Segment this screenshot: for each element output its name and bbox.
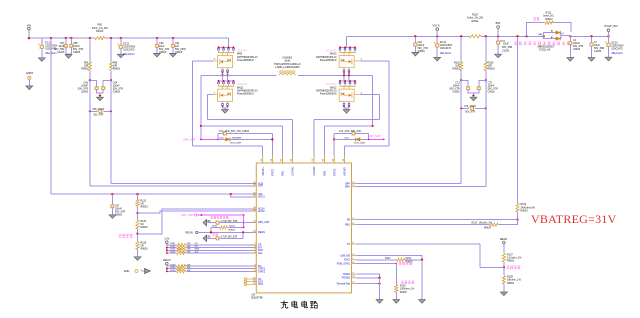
capacitor C71 bootstrap left xyxy=(218,131,272,155)
svg-text:R0603: R0603 xyxy=(507,282,515,285)
svg-text:REGN: REGN xyxy=(163,259,170,262)
resistor R150 pullup STAT2 xyxy=(166,270,256,273)
wire MN10 gate xyxy=(345,59,389,155)
svg-text:C70_470pF: C70_470pF xyxy=(464,106,477,108)
svg-text:PGND2: PGND2 xyxy=(342,277,351,280)
svg-text:R144: R144 xyxy=(170,251,176,253)
svg-text:R0603: R0603 xyxy=(113,68,121,71)
annotation pink TS xyxy=(507,266,521,269)
resistor R144 pullup SCL xyxy=(166,251,256,254)
power port PCAP_30V xyxy=(604,24,617,36)
label MN9 xyxy=(237,49,258,62)
wire rail down to MN10 drains xyxy=(345,36,347,47)
svg-text:08a;12mm: 08a;12mm xyxy=(612,52,623,55)
wire ILIM_HIZ row xyxy=(357,256,423,260)
svg-text:75ohm: 75ohm xyxy=(229,225,236,227)
wire MN12 gate xyxy=(314,92,379,155)
svg-text:10K: 10K xyxy=(187,270,191,272)
svg-text:010C2470: 010C2470 xyxy=(612,47,624,50)
svg-text:C1206: C1206 xyxy=(57,51,65,54)
junction dots on right rail xyxy=(414,35,609,37)
svg-text:4.7UF 25V_X7R: 4.7UF 25V_X7R xyxy=(221,221,238,223)
svg-text:R139: R139 xyxy=(400,285,406,287)
svg-text:VSYS: VSYS xyxy=(433,23,440,27)
svg-text:R0603: R0603 xyxy=(229,230,236,232)
svg-text:50V_X7R: 50V_X7R xyxy=(94,115,104,117)
svg-text:PowerDI5060-8: PowerDI5060-8 xyxy=(237,93,254,96)
svg-text:R0603: R0603 xyxy=(406,262,413,264)
label MN10 xyxy=(316,49,337,62)
ground filter center xyxy=(97,96,104,101)
transistor MN9 xyxy=(213,46,234,74)
label U8 refdes xyxy=(252,293,264,300)
wire VAC vertical xyxy=(50,38,52,194)
svg-text:SW1: SW1 xyxy=(282,170,285,176)
resistor R132 xyxy=(516,203,536,220)
ground under R138 xyxy=(501,292,508,296)
svg-text:10K: 10K xyxy=(187,251,191,253)
capacitor C60 xyxy=(154,38,170,57)
node right filter center xyxy=(472,95,474,97)
ground under C57 C58 xyxy=(65,54,72,58)
svg-text:50V_X7R: 50V_X7R xyxy=(465,112,475,114)
capacitor C57 xyxy=(54,38,68,54)
svg-text:R0603: R0603 xyxy=(484,228,491,230)
IC U8 top pins xyxy=(261,155,347,176)
ground right filter xyxy=(470,96,477,101)
svg-text:R0603: R0603 xyxy=(141,226,149,229)
capacitor C70 xyxy=(460,106,487,114)
svg-text:DRV_SUP: DRV_SUP xyxy=(184,138,196,141)
port DRV_SUP left xyxy=(182,214,245,228)
wire MN11 gate xyxy=(208,92,293,155)
wire SRP vertical xyxy=(460,80,462,183)
wire BAT rail segment 3 xyxy=(570,35,608,37)
svg-text:SDA: SDA xyxy=(195,248,200,251)
label MN11 xyxy=(237,83,258,96)
ground under R136 xyxy=(134,257,141,261)
power port 3.3V xyxy=(164,238,169,254)
power port BAT xyxy=(496,21,501,37)
svg-text:C65_470pF: C65_470pF xyxy=(92,109,105,111)
resistor R133 xyxy=(357,220,518,230)
wire MN11 source to ground xyxy=(223,107,228,110)
resistor R147 xyxy=(357,258,424,264)
annotation pink diode selection xyxy=(514,42,570,45)
resistor R60 xyxy=(92,24,108,40)
wire MN9 gate xyxy=(193,59,263,155)
wire SW1 to bootstrap xyxy=(200,75,283,155)
svg-text:C68: C68 xyxy=(206,221,211,223)
port REGN left xyxy=(186,231,257,234)
transistor MN10 xyxy=(339,46,360,74)
svg-text:BAT: BAT xyxy=(496,21,501,25)
wire MN11 drains up xyxy=(223,75,228,81)
inductor CHOKE3 xyxy=(274,57,301,76)
ground MN11 source xyxy=(222,110,229,114)
resistor R148 pullup PG xyxy=(167,265,256,268)
svg-text:R141: R141 xyxy=(170,243,176,245)
capacitor EC10 xyxy=(605,36,624,61)
capacitor C62 xyxy=(412,36,428,56)
IC U8 body xyxy=(256,163,351,293)
svg-text:R0603: R0603 xyxy=(507,260,515,263)
svg-text:VAC-2: VAC-2 xyxy=(258,196,266,199)
svg-text:SOD-123FL: SOD-123FL xyxy=(230,142,242,144)
wire ACN horizontal to U8 xyxy=(111,183,256,185)
wire PGND to ground xyxy=(376,278,383,303)
svg-text:VBATREG=31V: VBATREG=31V xyxy=(531,212,617,226)
ground under EC12 xyxy=(38,58,45,62)
diode D46 bootstrap right xyxy=(333,135,385,144)
svg-text:10K: 10K xyxy=(187,267,191,269)
svg-text:10K: 10K xyxy=(187,243,191,245)
svg-text:13Kohm_1%: 13Kohm_1% xyxy=(479,223,492,225)
node TS divider xyxy=(503,266,505,268)
node FB xyxy=(516,219,518,221)
wire VBUS rail right segment xyxy=(105,37,229,39)
svg-text:R122: R122 xyxy=(212,225,218,227)
wire R68 to sense node xyxy=(110,71,112,81)
svg-text:BTST2: BTST2 xyxy=(333,168,336,176)
svg-text:010C2470: 010C2470 xyxy=(440,47,452,50)
resistor R66 xyxy=(81,38,91,71)
resistor R131 xyxy=(136,194,148,213)
node ACUV tap xyxy=(136,233,138,235)
svg-text:R2512: R2512 xyxy=(471,20,479,23)
capacitor C63 filter xyxy=(78,80,100,95)
svg-text:C0603: C0603 xyxy=(81,90,89,93)
power port VSYS xyxy=(433,23,440,36)
svg-text:PowerDI5060-8: PowerDI5060-8 xyxy=(320,59,337,62)
annotation pink FSW xyxy=(399,262,412,265)
svg-text:10K: 10K xyxy=(187,249,191,251)
svg-text:GND: GND xyxy=(124,270,130,273)
power port REGN pullup xyxy=(163,259,170,271)
resistor R142 pullup INT xyxy=(166,246,256,249)
svg-text:HIDRV1: HIDRV1 xyxy=(262,167,265,176)
svg-text:TS: TS xyxy=(347,243,350,246)
wire SW2 to bootstrap xyxy=(325,75,374,155)
svg-text:BTST1: BTST1 xyxy=(272,168,275,176)
svg-text:08a;12mm: 08a;12mm xyxy=(123,53,134,56)
wire PGND row 1 xyxy=(357,274,380,278)
wire MN12 drains up xyxy=(344,75,349,81)
node filter center xyxy=(99,95,101,97)
svg-text:ILIM_HIZ: ILIM_HIZ xyxy=(340,255,350,258)
node ACN junction xyxy=(110,79,112,81)
resistor R138 xyxy=(502,267,521,292)
svg-text:FBG: FBG xyxy=(345,224,350,227)
wire SW1 rail xyxy=(201,74,277,76)
svg-text:C0603: C0603 xyxy=(159,51,167,54)
capacitor C75 filter xyxy=(474,80,499,93)
svg-text:ACOV: ACOV xyxy=(258,210,265,213)
wire VAC horizontal to U8 xyxy=(51,193,256,195)
svg-text:ICHG: ICHG xyxy=(344,259,350,262)
svg-text:C0603: C0603 xyxy=(453,90,461,93)
capacitor C68 DRV_SUP xyxy=(203,216,256,226)
node ACOV tap xyxy=(136,212,138,214)
svg-text:R149: R149 xyxy=(170,267,176,269)
capacitor C72 bootstrap right xyxy=(334,131,369,155)
power port VIN xyxy=(27,23,31,38)
svg-text:PowerDI5060-8: PowerDI5060-8 xyxy=(237,59,254,62)
svg-text:DRV_SUP: DRV_SUP xyxy=(369,135,381,138)
svg-text:4.7UF 25V_X7R: 4.7UF 25V_X7R xyxy=(221,237,238,239)
capacitor EC11 xyxy=(117,38,136,58)
power port REGN right xyxy=(500,238,507,254)
ground MN12 source xyxy=(343,110,350,114)
resistor R136 xyxy=(136,234,148,257)
svg-text:1N4448W: 1N4448W xyxy=(232,137,243,139)
resistor R149 pullup STAT1 xyxy=(166,267,256,270)
capacitor C61 xyxy=(170,38,186,57)
svg-text:FB: FB xyxy=(347,219,350,222)
svg-text:C0603: C0603 xyxy=(73,51,81,54)
svg-text:ACP: ACP xyxy=(258,185,263,188)
wire MN12 source to ground xyxy=(344,107,349,110)
wire R132 from rail xyxy=(517,36,519,203)
wire SRP horizontal to U8 xyxy=(357,183,462,185)
ground under R139 xyxy=(393,300,400,304)
svg-text:STAT2: STAT2 xyxy=(258,270,266,273)
svg-text:R150: R150 xyxy=(170,270,176,272)
wire SW2 rail xyxy=(298,74,373,76)
svg-text:SCL: SCL xyxy=(258,252,263,255)
capacitor C67 xyxy=(109,194,126,218)
IC U8 left pins xyxy=(251,182,269,286)
wire VAC-2 jog xyxy=(230,193,257,197)
svg-text:C1206: C1206 xyxy=(594,50,602,53)
no-connect marks U8 xyxy=(244,278,251,286)
capacitor C69 REGN xyxy=(203,232,243,241)
svg-text:LODRV2: LODRV2 xyxy=(313,166,316,176)
wire FB to U8 xyxy=(357,219,518,221)
svg-text:C71_47nF_50V_X7R_C0603: C71_47nF_50V_X7R_C0603 xyxy=(219,131,250,133)
annotation pink left divider xyxy=(119,234,133,237)
svg-text:100Kohm_1%: 100Kohm_1% xyxy=(400,289,414,291)
svg-text:DRV_SUP: DRV_SUP xyxy=(258,221,270,224)
node divider tap top xyxy=(136,193,138,195)
capacitor C74 xyxy=(495,36,513,58)
svg-text:REGN: REGN xyxy=(500,238,507,241)
wire Thermal Pad row xyxy=(357,282,381,284)
svg-text:REGN: REGN xyxy=(186,232,193,235)
svg-text:L-SMD_L13D8-W12D8: L-SMD_L13D8-W12D8 xyxy=(275,66,300,69)
svg-text:C72_47nF_50V_X7R: C72_47nF_50V_X7R xyxy=(339,131,361,133)
resistor R126 xyxy=(467,13,483,38)
wire MN10 sources to SW rail xyxy=(343,73,350,77)
svg-text:R133: R133 xyxy=(472,223,478,225)
svg-text:VIN: VIN xyxy=(27,23,31,27)
capacitor C64 filter xyxy=(100,80,123,93)
svg-text:C69: C69 xyxy=(206,237,211,239)
svg-text:R0603: R0603 xyxy=(488,68,496,71)
svg-text:C1206: C1206 xyxy=(502,49,510,52)
resistor R137 xyxy=(502,253,522,267)
wire ACOV to U8 xyxy=(138,211,257,213)
svg-text:C0603: C0603 xyxy=(418,50,426,53)
wire ILIM to ground xyxy=(419,260,426,303)
svg-text:SRN: SRN xyxy=(345,186,350,189)
svg-text:BQ25798: BQ25798 xyxy=(252,296,264,300)
svg-text:SW2: SW2 xyxy=(324,170,327,176)
transistor MN11 xyxy=(213,80,234,108)
capacitor C58 xyxy=(69,38,84,54)
diode D4 xyxy=(538,30,571,52)
svg-text:BAT: BAT xyxy=(538,33,543,36)
port GND bottom left xyxy=(124,268,151,273)
resistor R139 xyxy=(395,264,415,300)
wire R130 to sense node xyxy=(485,71,487,82)
capacitor EC12 xyxy=(38,38,58,58)
svg-text:R0603: R0603 xyxy=(400,292,407,294)
resistor R68 xyxy=(109,38,120,71)
svg-text:SOD-123FL: SOD-123FL xyxy=(354,142,366,144)
wire BAT rail segment 1 xyxy=(346,35,469,37)
svg-text:R0603: R0603 xyxy=(521,210,529,213)
svg-text:C0603: C0603 xyxy=(113,90,121,93)
capacitor EC14 xyxy=(434,36,453,61)
wire MN9 sources to SW rail xyxy=(221,73,228,77)
resistor R122 xyxy=(211,225,245,232)
wire R66 to sense node xyxy=(89,71,91,81)
svg-text:R143: R143 xyxy=(170,249,176,251)
svg-text:FSW_SYNC: FSW_SYNC xyxy=(337,262,351,265)
capacitor C4 xyxy=(567,36,584,61)
wire ACP vertical xyxy=(89,80,91,185)
svg-text:R0603: R0603 xyxy=(141,205,149,208)
wire ACN vertical xyxy=(110,80,112,183)
wire rail down to MN9 drains xyxy=(228,38,230,47)
svg-text:C0603: C0603 xyxy=(175,51,183,54)
svg-text:PGND: PGND xyxy=(343,273,350,276)
svg-text:DRV_SUP: DRV_SUP xyxy=(182,214,194,217)
svg-text:TO252_AK: TO252_AK xyxy=(539,48,551,51)
wire ACP horizontal to U8 xyxy=(90,185,256,187)
wire VBUS rail left segment xyxy=(29,37,95,39)
wire TS route xyxy=(357,244,504,267)
resistor R121 loop xyxy=(527,11,572,36)
svg-text:3.3V: 3.3V xyxy=(164,238,169,241)
title charging circuit text xyxy=(281,301,318,308)
resistor R129 xyxy=(453,36,463,70)
wire BAT rail segment 2 xyxy=(481,35,544,37)
wire FSW_SYNC row xyxy=(357,263,398,265)
svg-text:HIDRV2: HIDRV2 xyxy=(344,167,347,176)
capacitor C73 filter xyxy=(449,80,473,95)
node ACP junction xyxy=(89,79,91,81)
power port GND3 xyxy=(26,71,34,90)
wire R129 to sense node xyxy=(460,71,462,82)
junction dots on left rail xyxy=(28,37,174,39)
capacitor C7 xyxy=(588,36,604,61)
svg-text:R0612: R0612 xyxy=(546,18,554,21)
svg-text:010C2470: 010C2470 xyxy=(123,48,135,51)
wire PGND row 2 xyxy=(357,277,381,279)
resistor R130 xyxy=(484,36,495,70)
svg-text:0ohm: 0ohm xyxy=(406,258,412,260)
resistor R143 pullup SDA xyxy=(166,248,256,252)
svg-text:REGN: REGN xyxy=(258,231,265,234)
svg-text:Thermal Pad: Thermal Pad xyxy=(336,282,350,285)
wire ACUV to U8 xyxy=(138,209,257,234)
label MN12 xyxy=(316,83,337,96)
label VBATREG xyxy=(531,212,617,226)
wire SRN vertical xyxy=(485,80,487,186)
svg-text:R0603: R0603 xyxy=(141,247,149,250)
svg-text:PCAP_30V: PCAP_30V xyxy=(604,24,617,28)
svg-text:08a;12mm: 08a;12mm xyxy=(440,52,451,55)
svg-text:LODRV1: LODRV1 xyxy=(292,166,295,176)
node C67 tap xyxy=(111,193,113,195)
svg-text:C0603: C0603 xyxy=(573,48,581,51)
svg-text:C0603: C0603 xyxy=(488,90,496,93)
capacitor C65 xyxy=(89,109,112,117)
svg-text:NC3: NC3 xyxy=(258,283,263,286)
svg-text:R0603: R0603 xyxy=(453,68,461,71)
transistor MN12 xyxy=(339,80,360,108)
svg-text:R0603: R0603 xyxy=(81,68,89,71)
svg-text:R147: R147 xyxy=(385,258,391,260)
svg-text:R2512: R2512 xyxy=(96,30,104,33)
IC U8 right pins xyxy=(336,182,356,285)
svg-text:PowerDI5060-8: PowerDI5060-8 xyxy=(320,93,337,96)
resistor R134 xyxy=(136,213,148,234)
resistor R141 pullup CE xyxy=(167,243,256,246)
diode D45 bootstrap left xyxy=(184,137,274,144)
wire SRN horizontal to U8 xyxy=(357,186,486,188)
svg-text:GND3: GND3 xyxy=(26,71,34,75)
svg-text:C0603: C0603 xyxy=(115,213,123,216)
